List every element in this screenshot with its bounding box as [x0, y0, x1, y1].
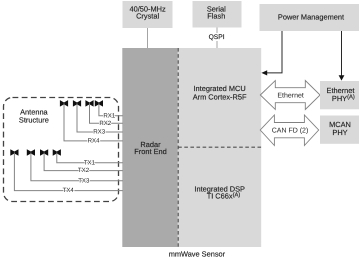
antenna RX1 bowtie [95, 100, 103, 107]
wire RX1 [99, 103, 123, 115]
block 40/50-MHz Crystal [123, 1, 173, 28]
antenna TX2 bowtie [40, 149, 48, 156]
svg-text:QSPI: QSPI [209, 34, 225, 41]
block Radar Front End [122, 48, 178, 247]
svg-text:Front End: Front End [134, 147, 166, 156]
svg-text:TX4: TX4 [63, 187, 75, 194]
svg-text:Ethernet: Ethernet [277, 92, 304, 100]
wire RX3 [77, 103, 123, 132]
block Ethernet PHY(A) [320, 81, 359, 109]
svg-text:TX3: TX3 [78, 177, 90, 184]
antenna structure dashed box [4, 98, 119, 202]
antenna TX3 bowtie [27, 149, 35, 156]
block Power Management [260, 4, 360, 31]
antenna RX2 bowtie [85, 100, 93, 107]
svg-text:Arm Cortex-R5F: Arm Cortex-R5F [193, 93, 247, 102]
svg-text:RX2: RX2 [99, 120, 111, 127]
bus arrow Ethernet (bidirectional) [260, 81, 320, 110]
label Integrated DSP TI C66x(A) [194, 185, 245, 201]
wire crystal to radar front end [147, 28, 149, 48]
antenna TX1 bowtie [53, 149, 61, 156]
svg-text:Crystal: Crystal [136, 12, 159, 21]
svg-text:Power Management: Power Management [278, 12, 344, 21]
wire RX2 [90, 103, 123, 123]
antenna RX3 bowtie [73, 100, 81, 107]
svg-text:RX1: RX1 [103, 112, 115, 119]
divider MCU/DSP dashed [178, 146, 261, 148]
wire RX4 [64, 103, 123, 140]
antenna TX4 bowtie [10, 149, 18, 156]
divider radar/MCU dashed [177, 48, 179, 247]
block MCAN PHY [320, 116, 359, 144]
wire Power Management to MCU (arrow left) [261, 31, 282, 76]
block Serial Flash [193, 1, 242, 28]
label Integrated MCU Arm Cortex-R5F [193, 84, 247, 101]
svg-text:CAN FD (2): CAN FD (2) [272, 127, 309, 135]
wire Power Management to Ethernet PHY (arrow down) [339, 31, 345, 81]
svg-text:TX2: TX2 [78, 167, 90, 174]
net label QSPI [206, 33, 228, 41]
wire TX1 [57, 153, 123, 163]
wire TX4 [14, 153, 122, 191]
wire TX3 [31, 153, 123, 181]
block Integrated MCU / DSP [178, 48, 261, 247]
svg-text:PHY: PHY [332, 128, 347, 137]
antenna RX4 bowtie [60, 100, 68, 107]
svg-text:RX3: RX3 [93, 129, 105, 136]
wire TX2 [44, 153, 123, 171]
svg-text:RX4: RX4 [88, 138, 100, 145]
svg-text:Structure: Structure [19, 115, 49, 124]
bus arrow CAN FD (2) (bidirectional) [260, 115, 319, 146]
wire serial flash QSPI to MCU [216, 28, 218, 49]
svg-text:TX1: TX1 [84, 159, 96, 166]
svg-text:Flash: Flash [207, 12, 225, 21]
svg-text:mmWave Sensor: mmWave Sensor [169, 249, 226, 258]
